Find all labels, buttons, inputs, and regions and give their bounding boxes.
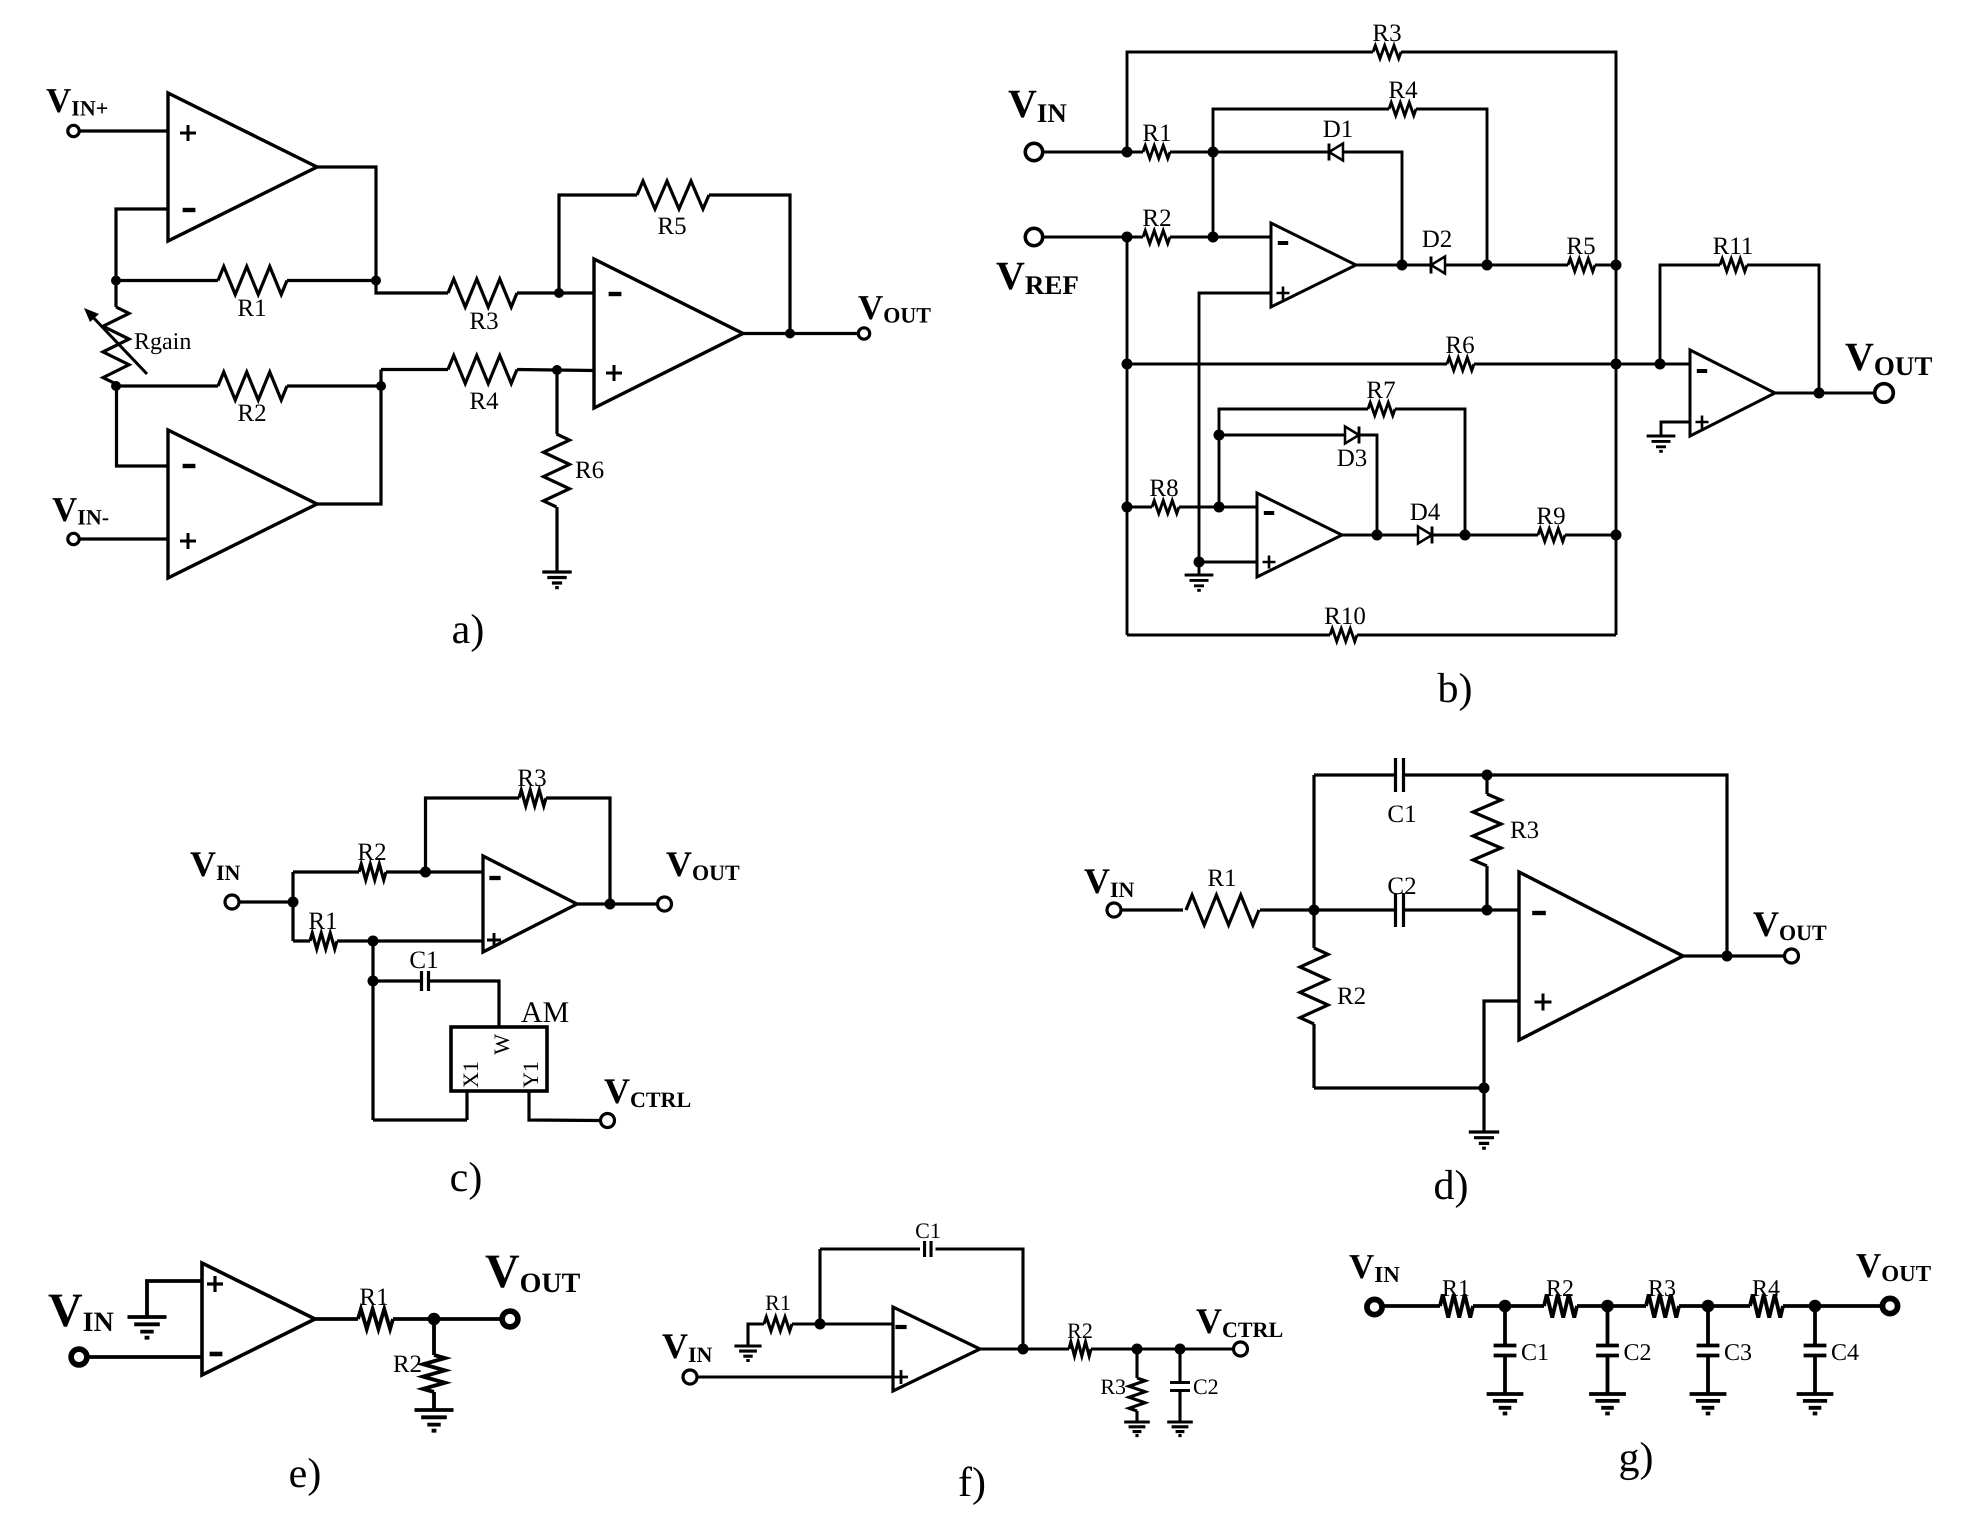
junction D3 branch on R7 vertical	[1214, 430, 1225, 441]
wire R1 to U10 - input	[792, 1322, 893, 1325]
svg-text:R4: R4	[469, 388, 499, 415]
svg-text:AM: AM	[521, 996, 569, 1029]
junction R4 right / R6 top	[552, 365, 562, 375]
capacitor C1 g (vertical)	[1503, 1306, 1507, 1346]
resistor R3 g	[1646, 1295, 1679, 1318]
wire R4 branch up	[1213, 109, 1389, 152]
wire D2 to R5	[1445, 264, 1568, 267]
op-amp U4 (b top)	[1271, 223, 1356, 307]
svg-text:R3: R3	[1510, 817, 1539, 844]
terminal VREF	[1025, 228, 1042, 245]
terminal VIN+	[68, 125, 79, 136]
ground below R1 f	[734, 1346, 761, 1361]
terminal VIN e	[71, 1349, 87, 1365]
ground below C3 g	[1690, 1394, 1727, 1414]
wire U9 + input to ground	[147, 1281, 202, 1317]
svg-text:R3: R3	[1648, 1276, 1676, 1302]
svg-text:f): f)	[958, 1460, 986, 1506]
resistor R6 b	[1447, 358, 1474, 371]
resistor R1 b	[1143, 146, 1170, 159]
wire D3 row	[1219, 434, 1345, 437]
wire R4 right down to D2 node	[1416, 109, 1487, 265]
junction R2 right / R3 branch	[420, 867, 431, 878]
wire C1 feedback row f	[820, 1247, 920, 1250]
junction VIN/R3 branch	[1122, 147, 1133, 158]
wire C2 row d	[1314, 908, 1395, 911]
terminal VCTRL c	[601, 1114, 615, 1128]
junction R9 / right bus	[1611, 530, 1622, 541]
wire VIN+ to op-amp U1 + input	[79, 129, 168, 132]
svg-text:R1: R1	[1142, 120, 1171, 147]
wire VIN to U10 + input	[697, 1375, 894, 1378]
wire R8 to U5 - input	[1179, 506, 1257, 509]
wire R1 to D1	[1170, 151, 1329, 154]
wire R6 to U6 - input	[1474, 363, 1690, 366]
wire R2 row left	[116, 384, 218, 387]
multiplier AM box	[451, 1027, 547, 1091]
svg-text:R6: R6	[575, 457, 604, 484]
wire R1 row right	[287, 279, 376, 282]
svg-text:C1: C1	[1387, 801, 1416, 828]
wire R2 to U4 - input	[1170, 236, 1271, 239]
junction node4 g	[1809, 1300, 1822, 1313]
svg-text:D1: D1	[1323, 116, 1354, 143]
svg-text:R1: R1	[1207, 865, 1236, 892]
svg-text:D4: D4	[1410, 499, 1441, 526]
resistor R1 f	[764, 1317, 792, 1331]
junction C1 / R3 top	[1482, 770, 1493, 781]
wire R1 row c	[293, 939, 310, 942]
svg-text:R5: R5	[657, 213, 686, 240]
svg-text:W: W	[489, 1034, 514, 1055]
junction left bus / R8	[1122, 502, 1133, 513]
wire R1 to VOUT e	[393, 1317, 502, 1321]
wire D1 to down-branch	[1343, 152, 1402, 265]
svg-text:R10: R10	[1324, 603, 1366, 630]
svg-text:R4: R4	[1388, 77, 1418, 104]
wire U2 output up to R2/R4 node	[317, 370, 381, 505]
resistor R2 g	[1544, 1295, 1577, 1318]
resistor R7	[1368, 403, 1395, 416]
wire R4 to U3 + input	[517, 370, 594, 371]
resistor R2	[218, 372, 287, 400]
junction node2 g	[1601, 1300, 1614, 1313]
svg-text:C2: C2	[1387, 873, 1416, 900]
junction D4 / R7 branch	[1460, 530, 1471, 541]
junction R8 / R7 branch	[1214, 502, 1225, 513]
svg-text:R1: R1	[359, 1284, 388, 1311]
svg-text:R8: R8	[1149, 475, 1178, 502]
wire VIN to R1 d	[1121, 908, 1184, 911]
resistor R2 d (vertical)	[1312, 910, 1315, 948]
wire R7 branch	[1219, 409, 1368, 507]
arrow of Rgain	[89, 313, 147, 374]
op-amp U6 (b output)	[1690, 350, 1775, 436]
wire C1 row c	[373, 979, 422, 982]
wire R1 to node1 g	[1473, 1304, 1544, 1308]
wire R2 to U7 - input	[386, 870, 483, 873]
junction U4+ / U5+ ground node	[1194, 557, 1205, 568]
wire R4 row	[381, 368, 448, 371]
left bus vertical	[1126, 237, 1129, 635]
wire R8 row	[1127, 506, 1152, 509]
junction C2 top f	[1175, 1344, 1186, 1355]
junction U4 out / D1 branch	[1397, 260, 1408, 271]
ground below R2 e	[415, 1410, 454, 1431]
svg-text:R2: R2	[393, 1351, 422, 1378]
wire bottom row to C1 branch	[373, 1118, 467, 1121]
resistor R1 c	[310, 933, 337, 949]
svg-text:D3: D3	[1337, 445, 1368, 472]
ground below C4 g	[1797, 1394, 1834, 1414]
junction R3 right / R5 branch	[554, 288, 564, 298]
junction R2 right / R1-R2 vertical	[1208, 232, 1219, 243]
terminal VIN g	[1367, 1299, 1382, 1314]
junction R6 / right bus	[1611, 359, 1622, 370]
wire R3 branch up	[1127, 52, 1373, 152]
diode D2	[1430, 257, 1433, 274]
svg-text:R2: R2	[237, 400, 266, 427]
wire R3 to node3 g	[1679, 1304, 1750, 1308]
junction output / R3 c	[605, 899, 616, 910]
svg-text:R2: R2	[1142, 205, 1171, 232]
terminal VIN d	[1107, 903, 1121, 917]
right bus vertical	[1615, 52, 1618, 635]
svg-text:C1: C1	[409, 947, 438, 974]
wire D3 right down to output node	[1359, 435, 1377, 535]
junction output / R5	[785, 329, 795, 339]
svg-text:c): c)	[450, 1155, 483, 1201]
junction node3 g	[1702, 1300, 1715, 1313]
circuit c) controlled amplifier with analog multiplier	[190, 765, 740, 1201]
terminal VOUT e	[502, 1311, 518, 1327]
svg-text:R1: R1	[765, 1290, 791, 1315]
wire R3 row from R1 node	[376, 281, 448, 294]
resistor R3 f (vertical)	[1135, 1349, 1138, 1378]
wire U1 - input to node A	[116, 209, 168, 281]
wire C1 row d	[1314, 773, 1395, 776]
ground below C2 f	[1167, 1422, 1193, 1436]
wire Y1 pin to VCTRL	[529, 1091, 601, 1121]
wire R7 right down to D4 node	[1395, 409, 1465, 535]
ground below C1 g	[1487, 1394, 1524, 1414]
junction input node d	[1309, 905, 1320, 916]
ground below U6 + input	[1647, 436, 1676, 451]
circuit a) instrumentation amplifier	[46, 81, 931, 653]
node A junction	[111, 276, 121, 286]
wire U2 - input to node B	[117, 386, 169, 466]
svg-text:R2: R2	[1337, 983, 1366, 1010]
terminal VOUT a	[858, 328, 869, 339]
capacitor C1 c	[422, 971, 429, 991]
svg-text:C4: C4	[1831, 1340, 1859, 1366]
wire VIN to U9 - input	[87, 1355, 202, 1359]
ground below U5 + input	[1198, 562, 1201, 575]
wire U4 + input to ground branch	[1199, 293, 1271, 562]
junction R3 top f	[1132, 1344, 1143, 1355]
capacitor C1 d	[1396, 758, 1404, 792]
circuit g) 4-stage RC ladder filter	[1349, 1246, 1931, 1481]
op-amp U5 (b bottom)	[1257, 493, 1342, 577]
terminal VIN-	[68, 533, 79, 544]
capacitor C4 g (vertical)	[1813, 1306, 1817, 1346]
wire D4 to R9	[1432, 534, 1538, 537]
junction output / C1 f	[1018, 1344, 1029, 1355]
capacitor C1 f	[925, 1241, 932, 1257]
wire input vertical c	[291, 872, 294, 941]
junction node1 g	[1499, 1300, 1512, 1313]
resistor R1 d	[1186, 895, 1259, 925]
junction R6 / R11 branch	[1655, 359, 1666, 370]
svg-text:Rgain: Rgain	[134, 329, 191, 355]
junction R1 / C1 f	[815, 1319, 826, 1330]
terminal VOUT d	[1785, 949, 1799, 963]
wire R6 row	[1127, 363, 1447, 366]
resistor R3 c	[519, 790, 546, 806]
wire C1 to feedback corner	[1404, 775, 1727, 956]
junction output / C1 feedback	[1722, 951, 1733, 962]
wire C1 right down to output f	[936, 1249, 1024, 1349]
circuit d) multiple feedback band-pass filter	[1084, 758, 1827, 1209]
node B junction (R2 row left)	[111, 381, 121, 391]
capacitor C2 f (vertical)	[1178, 1349, 1181, 1382]
svg-text:R6: R6	[1445, 332, 1474, 359]
wire R1 to U7 + input	[337, 939, 483, 942]
wire R1 row left	[116, 279, 218, 282]
svg-text:R1: R1	[1442, 1276, 1470, 1302]
resistor R8	[1152, 501, 1179, 514]
svg-text:R7: R7	[1366, 377, 1395, 404]
wire VIN to input node	[239, 900, 294, 903]
ground below C2 g	[1589, 1394, 1626, 1414]
terminal VOUT c	[658, 897, 672, 911]
wire R1 to input node d	[1260, 908, 1314, 911]
wire R9 to right bus	[1565, 534, 1616, 537]
wire R3 to right bus	[1401, 52, 1616, 265]
wire U7 output row	[577, 902, 658, 905]
junction bottom / ground d	[1479, 1083, 1490, 1094]
wire R11 branch	[1660, 265, 1720, 364]
junction U5 out / D3 branch	[1372, 530, 1383, 541]
wire U9 output to R1 e	[315, 1317, 358, 1321]
resistor R1 g	[1440, 1295, 1473, 1318]
ground at U9 + input	[128, 1317, 167, 1338]
wire R2 row c	[293, 870, 359, 873]
svg-text:C2: C2	[1624, 1340, 1652, 1366]
wire U3 output to VOUT	[743, 332, 858, 335]
junction R1 / R2 e	[428, 1313, 441, 1326]
svg-text:R3: R3	[469, 308, 498, 335]
capacitor C2 g (vertical)	[1606, 1306, 1610, 1346]
junction R1 right / R4 branch	[1208, 147, 1219, 158]
svg-text:R3: R3	[1372, 20, 1401, 47]
wire U8 output to VOUT d	[1683, 954, 1785, 957]
svg-text:g): g)	[1619, 1435, 1654, 1481]
wire R3 to U3 - input	[517, 291, 594, 294]
svg-text:b): b)	[1438, 666, 1473, 712]
svg-text:D2: D2	[1422, 226, 1453, 253]
svg-text:R2: R2	[1546, 1276, 1574, 1302]
wire R5 to bus	[1595, 264, 1616, 267]
resistor R5	[637, 181, 709, 209]
svg-text:Y1: Y1	[518, 1061, 543, 1088]
svg-text:e): e)	[289, 1451, 322, 1497]
wire R5 feedback left vertical	[559, 195, 637, 293]
resistor R6 (vertical)	[555, 370, 558, 434]
resistor R2 b	[1143, 231, 1170, 244]
op-amp U8 (d)	[1519, 872, 1683, 1040]
resistor R11	[1720, 259, 1747, 272]
wire R10 row	[1127, 634, 1330, 637]
svg-text:R4: R4	[1752, 1276, 1780, 1302]
svg-text:C1: C1	[915, 1218, 941, 1243]
svg-text:R3: R3	[517, 765, 546, 792]
resistor R5 b	[1568, 259, 1595, 272]
svg-text:R5: R5	[1566, 233, 1595, 260]
svg-text:R9: R9	[1536, 503, 1565, 530]
junction R1 right / U1 output	[371, 276, 381, 286]
wire VIN to R1	[1044, 151, 1143, 154]
terminal VIN c	[225, 895, 239, 909]
capacitor C3 g (vertical)	[1706, 1306, 1710, 1346]
diode D3	[1358, 427, 1361, 444]
terminal VOUT g	[1882, 1298, 1897, 1313]
svg-text:C3: C3	[1724, 1340, 1752, 1366]
wire R10 to right bus	[1357, 634, 1616, 637]
resistor R1	[218, 267, 287, 295]
resistor R3 b	[1373, 46, 1401, 59]
op-amp U3 (output)	[594, 259, 743, 408]
wire R4 to VOUT g	[1783, 1304, 1882, 1308]
resistor R1 e	[358, 1309, 393, 1329]
svg-text:R1: R1	[308, 908, 337, 935]
diode D1	[1328, 144, 1331, 161]
junction R5 / right bus	[1611, 260, 1622, 271]
wire C2 to U8 - input	[1404, 908, 1519, 911]
junction input node c	[288, 897, 299, 908]
circuit f) integrator with output filter	[662, 1218, 1283, 1506]
resistor R2 c	[359, 864, 386, 880]
svg-text:R11: R11	[1713, 233, 1754, 260]
wire R5 right vertical to output	[709, 195, 790, 333]
svg-text:X1: X1	[458, 1061, 483, 1088]
wire U10 output to R2 f	[980, 1347, 1069, 1350]
wire VIN to R1 g	[1384, 1304, 1441, 1308]
svg-text:a): a)	[452, 607, 485, 653]
ground d	[1482, 1088, 1485, 1132]
resistor R9	[1538, 529, 1565, 542]
svg-text:R1: R1	[237, 295, 266, 322]
circuit e) inverting amplifier with divider	[48, 1245, 581, 1497]
wire U6 + input to ground	[1661, 422, 1690, 436]
wire R1 left corner to ground f	[748, 1324, 764, 1346]
wire U6 output to VOUT b	[1775, 392, 1874, 395]
wire U5 output to D4	[1342, 534, 1418, 537]
junction VREF / left bus	[1122, 232, 1133, 243]
junction D2 / R4 branch	[1482, 260, 1493, 271]
ground below R6	[542, 572, 571, 588]
terminal VOUT b	[1875, 384, 1894, 403]
junction C1 row	[368, 976, 379, 987]
wire VIN- to U2 + input	[79, 537, 168, 540]
op-amp U7 (c)	[483, 856, 577, 952]
op-amp U2 (bottom left)	[168, 430, 317, 578]
op-amp U10 (f)	[893, 1307, 980, 1391]
resistor R3	[448, 279, 517, 307]
wire input vertical to C1 row	[1312, 775, 1315, 910]
ground below R3 f	[1124, 1422, 1150, 1436]
circuit b) precision rectifier	[996, 20, 1932, 712]
wire R11 right down to output	[1747, 265, 1819, 394]
wire R3 feedback branch c	[426, 798, 520, 872]
wire R3 right down to output c	[546, 798, 610, 905]
op-amp U9 (e)	[202, 1263, 315, 1375]
wire X1 pin down to bottom row	[465, 1091, 468, 1120]
wire R2 to VCTRL f	[1091, 1347, 1234, 1350]
resistor R2 e (vertical)	[432, 1319, 436, 1355]
resistor R3 d (vertical)	[1485, 775, 1488, 794]
svg-text:R2: R2	[357, 839, 386, 866]
wire R2 to node2 g	[1577, 1304, 1646, 1308]
svg-text:C1: C1	[1521, 1340, 1549, 1366]
resistor R2 f	[1069, 1342, 1091, 1356]
wire U8 + input to bottom node	[1484, 1001, 1519, 1088]
resistor R4	[448, 356, 517, 384]
svg-text:C2: C2	[1193, 1374, 1219, 1399]
wire bottom row d	[1314, 1086, 1484, 1089]
svg-text:d): d)	[1434, 1163, 1469, 1209]
wire U1 output down to R1 right node	[317, 167, 376, 281]
terminal VIN b	[1025, 143, 1042, 160]
resistor R4 g	[1750, 1295, 1783, 1318]
resistor Rgain (variable)	[114, 281, 117, 308]
wire R2 row right	[287, 384, 381, 387]
wire C1 branch vertical c	[371, 941, 374, 1120]
resistor R4 b	[1389, 103, 1416, 116]
wire C1 to AM W pin	[429, 981, 500, 1027]
junction C2 / R3 bottom	[1482, 905, 1493, 916]
junction left bus / R6	[1122, 359, 1133, 370]
diode D4	[1431, 527, 1434, 544]
terminal VCTRL f	[1234, 1342, 1248, 1356]
junction R2 right / U2 output	[376, 381, 386, 391]
wire U5 + input to ground	[1199, 561, 1257, 564]
wire vertical between R1 and R2 rows	[1212, 152, 1215, 237]
capacitor C2 d	[1396, 893, 1404, 927]
junction U6 out / R11	[1814, 388, 1825, 399]
svg-text:R3: R3	[1100, 1374, 1126, 1399]
wire U4 output to D2 node	[1356, 264, 1431, 267]
resistor R10	[1330, 629, 1357, 642]
junction R1 right / C1 branch	[368, 936, 379, 947]
wire VREF to R2	[1044, 236, 1143, 239]
svg-text:R2: R2	[1067, 1318, 1093, 1343]
wire C1 left vertical f	[818, 1249, 821, 1324]
op-amp U1 (top left)	[168, 93, 317, 241]
terminal VIN f	[683, 1370, 697, 1384]
